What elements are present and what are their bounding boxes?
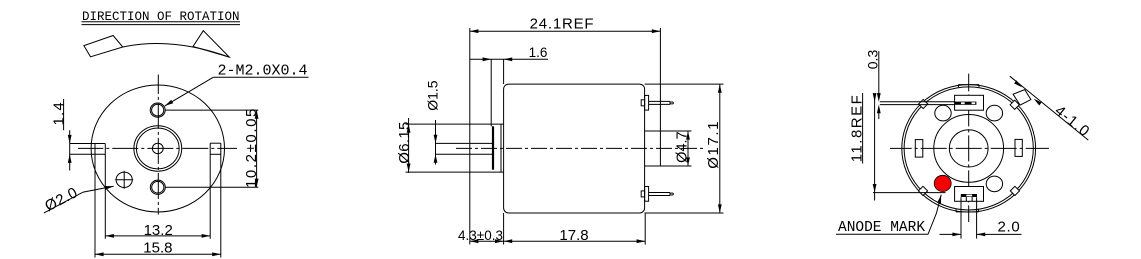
left view bearing boss double circle [134,126,182,172]
left view vertical centerline [157,75,159,215]
middle view bottom terminal pin [645,187,649,202]
right view right vent slot [1015,139,1022,156]
0.3 extension lines [880,101,955,103]
dimension 2.0 [960,197,962,238]
right view inner circle [949,130,988,167]
dimension 15.8 [95,253,221,255]
right view top-right hole [986,105,1002,121]
middle view rear boss outline [645,130,692,132]
crimp tab detail square (4-1.0) [1013,90,1031,106]
left tab outer line / 15.8 extension [94,144,96,258]
dimension Ø1.5 [435,120,437,165]
case crimp tab top-right [1010,100,1019,109]
dimension Ø6.15 [408,118,410,173]
left view bottom M2 screw hole [150,180,165,194]
dimension 10.2±0.05 [165,109,258,111]
right view bottom flat [956,212,978,216]
dimension Ø4.7 [687,131,689,166]
right view anode mark red dot [934,175,951,191]
right view horizontal centerline [890,147,1049,149]
middle view shaft end / extension line [469,28,471,245]
svg-text:24.1REF: 24.1REF [530,16,595,33]
right view top-left hole [935,105,951,121]
middle view motor body rectangle [504,84,645,213]
right tab top edge [210,142,221,144]
svg-text:1.6: 1.6 [529,45,548,60]
left view side stub top line [70,143,106,145]
dimension Ø17.1 [645,83,724,85]
svg-text:13.2: 13.2 [144,222,173,239]
right view left vent slot [915,140,923,158]
leader 2-M2.0X0.4 [165,77,214,106]
right view top terminal block [955,95,984,110]
svg-text:1.4: 1.4 [50,101,67,125]
middle view shaft outline [436,142,494,144]
right tab inner line / 13.2 extension [209,143,211,239]
rotation arrow arc [123,43,230,57]
dimension 24.1REF [470,30,661,32]
rotation arrow head (open triangle) [193,31,229,57]
case crimp tab top-left [919,99,928,108]
svg-text:2.0: 2.0 [998,219,1021,236]
leader Ø2.0 [44,186,114,213]
dimension 1.6 [470,58,548,60]
svg-text:15.8: 15.8 [143,240,172,257]
svg-text:2-M2.0X0.4: 2-M2.0X0.4 [218,62,308,79]
middle view front boss outline [406,123,504,125]
dimension 0.3 [878,51,880,95]
right view top flat [957,81,981,85]
right view outer case double circle [902,85,1036,213]
svg-text:4.3±0.3: 4.3±0.3 [458,228,503,243]
rotation arrow tail (rotated rectangle) [84,36,123,57]
svg-text:Ø17.1: Ø17.1 [705,120,722,169]
dimension 4.3±0.3 and 17.8 baseline [470,240,645,242]
left view motor body circle [91,85,224,212]
right view bottom terminal block [955,187,984,202]
left tab inner line / 13.2 extension [104,144,106,239]
svg-text:0.3: 0.3 [864,50,880,70]
11.8REF bottom extension line [873,192,946,194]
right tab bottom edge [210,153,221,155]
left view shaft circle [152,143,163,153]
middle view horizontal centerline [456,147,706,149]
svg-text:Ø1.5: Ø1.5 [425,80,441,111]
svg-text:17.8: 17.8 [559,227,588,244]
dimension 13.2 [105,235,210,237]
svg-text:Ø6.15: Ø6.15 [396,121,413,163]
right tab outer line / 15.8 extension [220,143,222,257]
right view middle circle [934,114,1004,182]
svg-text:10.2±0.05: 10.2±0.05 [243,107,260,188]
left view top M2 screw hole [150,103,165,117]
dimension 4-1.0 leader line [1010,76,1089,140]
case crimp tab bottom-right [1010,186,1019,195]
left view side stub bottom line [70,153,106,155]
svg-text:Ø4.7: Ø4.7 [674,131,690,162]
right view bottom-right hole [986,176,1002,192]
right view vertical centerline [968,74,970,222]
left view horizontal centerline [78,147,237,149]
left view 2.0 hole with cross [116,172,132,187]
case crimp tab bottom-left [918,186,927,195]
middle view top terminal pin [645,95,649,110]
